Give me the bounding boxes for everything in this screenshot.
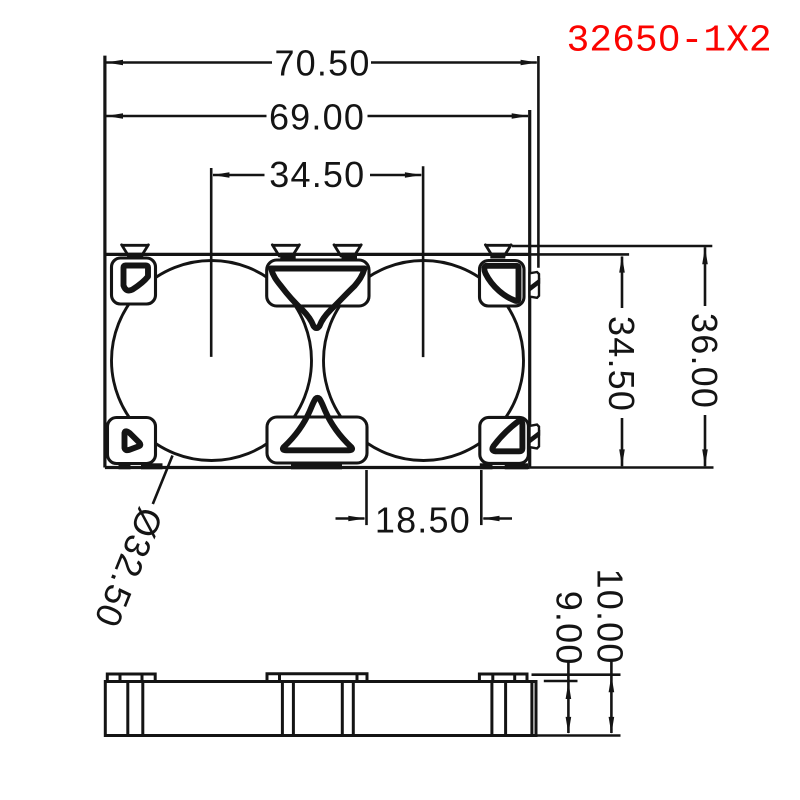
svg-text:10.00: 10.00	[590, 569, 631, 665]
svg-text:9.00: 9.00	[549, 591, 590, 666]
svg-text:70.50: 70.50	[274, 43, 370, 84]
svg-text:36.00: 36.00	[684, 313, 725, 409]
svg-text:69.00: 69.00	[269, 97, 365, 138]
svg-text:34.50: 34.50	[269, 154, 365, 195]
svg-text:18.50: 18.50	[375, 500, 471, 541]
svg-text:34.50: 34.50	[601, 316, 642, 412]
